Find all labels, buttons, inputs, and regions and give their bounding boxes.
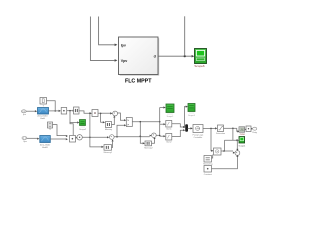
svg-text:Memory2: Memory2 [144, 148, 153, 150]
wire J to mux upper [172, 124, 183, 127]
constant A2 above filter2 [48, 122, 53, 131]
wire B to C with tap node [67, 110, 73, 112]
svg-text:FLC MPPT: FLC MPPT [125, 78, 152, 84]
product E [70, 136, 76, 143]
svg-text:Controller: Controller [194, 136, 203, 139]
scope Scope6 [194, 49, 206, 69]
wire filter1 to B [49, 110, 59, 112]
branch down to sum S top [236, 140, 237, 141]
node down into memory1 [101, 113, 103, 122]
vertical bus x=159.7 [159, 108, 161, 137]
scope mid (green) [79, 120, 87, 131]
node on output wire [184, 55, 186, 57]
wire U into sum S bottom [212, 157, 238, 169]
scope4 (green) [239, 137, 247, 148]
wire O to out port [250, 128, 252, 130]
svg-text:Scope1: Scope1 [167, 116, 175, 118]
wire M right with node [224, 127, 237, 129]
left branch down to R output junction [224, 140, 226, 151]
input port oval Vpv [22, 137, 28, 143]
saturation block M [216, 125, 225, 135]
scope2 (green) [188, 104, 196, 118]
svg-text:Memory: Memory [105, 129, 112, 131]
hold block C [74, 107, 80, 114]
compare block I [126, 118, 132, 127]
node to scope2 [184, 126, 185, 127]
sum3 [152, 133, 157, 138]
wire into Vpv [90, 17, 114, 61]
node down then to scope4 [225, 128, 237, 140]
pwm generator N [239, 127, 245, 136]
step down wire into pwm N [236, 128, 239, 131]
memory2 [104, 145, 113, 155]
scope1 (green) [166, 104, 174, 118]
node down to block R [210, 128, 212, 150]
sum1 [113, 111, 118, 116]
memory3 up into sum3 [152, 139, 155, 144]
sum S [235, 151, 240, 156]
node down into memory2 [90, 113, 102, 147]
wire C to G [79, 111, 90, 113]
svg-text:Saturation: Saturation [216, 132, 225, 135]
wire E to F [75, 137, 77, 139]
wire sum3 to bus [156, 134, 160, 136]
memory3 [144, 141, 153, 150]
svg-text:Scope2: Scope2 [79, 129, 87, 131]
wire mux to fuzzy [188, 127, 191, 129]
memory2 up into sum2 [112, 141, 113, 147]
svg-text:Ipv: Ipv [121, 43, 126, 47]
svg-text:Constant: Constant [204, 173, 212, 176]
wire N to O [244, 128, 246, 130]
lowpass filter1 (blue) [37, 108, 48, 121]
wire branch up from node [184, 16, 186, 56]
wire sum2 right, branch up to I.in2 [114, 136, 150, 138]
svg-text:d: d [154, 55, 156, 59]
subsystem FLC MPPT [119, 37, 160, 84]
lowpass filter2 (blue) [40, 136, 51, 149]
wire A down to row1 [47, 101, 56, 111]
wire bus to L [160, 135, 164, 137]
svg-text:Duty: Duty [253, 131, 257, 134]
svg-text:Gain1: Gain1 [166, 129, 172, 131]
svg-text:Scope6: Scope6 [194, 64, 205, 68]
fuzzy logic controller [193, 125, 204, 139]
wire fuzzy to saturation with node [203, 127, 215, 129]
svg-text:Gain2: Gain2 [166, 142, 172, 144]
sawtooth block U [204, 166, 212, 176]
product B [61, 108, 66, 115]
output port oval [253, 127, 257, 134]
sum2 [110, 135, 115, 140]
memory1 up into sum1 [112, 117, 115, 124]
wire port to filter2 [27, 137, 38, 139]
svg-text:Vpv: Vpv [121, 59, 128, 63]
svg-text:Hold1: Hold1 [42, 147, 48, 149]
wire F to sum2 with node [82, 136, 107, 138]
svg-text:Scope4: Scope4 [239, 145, 247, 147]
tap down to mid scope and row2 [70, 111, 77, 123]
wire A2 down to E [53, 125, 67, 136]
wire sum1 to compare I [118, 113, 125, 120]
wire FLC output to Scope6 [158, 55, 192, 57]
wire T up into R [212, 155, 213, 158]
wire filter2 to E [50, 138, 66, 140]
conversion block O [246, 126, 251, 132]
constant A above filter1 [40, 98, 47, 108]
round product F [77, 135, 82, 140]
wire G to sum1 with node [98, 112, 110, 114]
node down into memory3 [140, 135, 142, 137]
wire port to filter1 [26, 110, 35, 112]
gain block L [166, 134, 173, 144]
wire L to mux lower [172, 130, 183, 136]
svg-text:Scope3: Scope3 [188, 115, 196, 117]
input port oval Ipv [21, 110, 26, 116]
constant block T [203, 156, 212, 166]
clock block R [214, 148, 222, 155]
wire bus to J [160, 123, 164, 125]
svg-text:Memory1: Memory1 [104, 152, 113, 154]
wire R out to junction and sum S [221, 150, 233, 152]
product G [92, 110, 98, 117]
mux [185, 124, 188, 132]
wire I to vertical bus [132, 121, 159, 123]
memory1 [105, 122, 112, 132]
bus top to scope1 [160, 107, 164, 109]
svg-text:PWM: PWM [240, 134, 245, 136]
wire into Ipv [99, 17, 115, 45]
gain block J [166, 121, 173, 131]
